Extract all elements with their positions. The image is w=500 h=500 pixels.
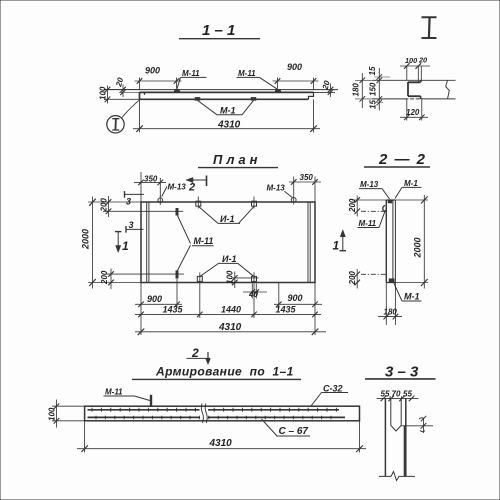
rib lines right (plan): [308, 202, 310, 283]
section mark 3 upper (plan): [125, 191, 145, 207]
svg-text:2000: 2000: [412, 237, 422, 258]
dim 900 left (section 1-1): [135, 66, 182, 91]
dim 55/70/55 (3-3): [377, 390, 419, 402]
label M-11 (2-2): [358, 210, 386, 228]
node I: dim 100 and 20 top: [400, 56, 430, 83]
svg-text:4310: 4310: [209, 438, 233, 449]
svg-text:200: 200: [348, 198, 357, 213]
node I: dim 120 bottom: [400, 99, 428, 121]
svg-text:350: 350: [300, 173, 314, 182]
break mark (armir.): [201, 404, 207, 424]
svg-text:15: 15: [368, 100, 377, 109]
svg-text:М-11: М-11: [105, 388, 123, 397]
dim 100 left (section 1-1): [99, 86, 140, 104]
svg-text:3: 3: [129, 220, 134, 230]
rib lines left (plan): [147, 202, 149, 283]
svg-text:4310: 4310: [218, 322, 242, 333]
svg-text:180: 180: [384, 308, 398, 317]
node I detail: serif I symbol: [422, 17, 437, 38]
svg-text:2 — 2: 2 — 2: [378, 151, 427, 168]
dim 2000 left (plan): [81, 197, 96, 289]
svg-text:И-1: И-1: [222, 254, 236, 264]
node I: break line right: [446, 80, 450, 99]
svg-text:Армирование по 1–1: Армирование по 1–1: [155, 365, 294, 379]
upper mesh S-32 line (armir.): [88, 409, 340, 411]
svg-text:М-11: М-11: [359, 219, 377, 228]
section mark 2 top: [186, 176, 207, 194]
svg-text:900: 900: [288, 293, 303, 303]
node I: floor top thin line: [373, 79, 456, 81]
svg-text:100: 100: [48, 407, 57, 421]
panel body section 1-1: [140, 92, 314, 99]
svg-text:М-13: М-13: [168, 183, 187, 192]
dim 180 bottom (2-2): [378, 283, 402, 326]
node mark circle I: [107, 100, 140, 133]
svg-text:3: 3: [126, 197, 131, 207]
node I: adjacent panel top edge: [408, 81, 421, 83]
embedded plate M-13 left (plan): [158, 195, 163, 204]
dim 100 left (armir.): [48, 400, 85, 428]
panel body section 2-2: [386, 200, 395, 283]
label M-11 right (section 1-1): [237, 69, 278, 89]
loop M-11 top bar (plan): [176, 208, 179, 216]
svg-text:180: 180: [351, 83, 360, 97]
loop M-11 bar (armir.): [150, 395, 152, 406]
svg-text:1: 1: [333, 239, 340, 253]
dim 200 bottom left (plan): [88, 269, 141, 290]
title Armirovanie po 1-1: [132, 365, 301, 380]
title 3-3: [365, 364, 436, 381]
svg-text:2: 2: [188, 182, 195, 194]
svg-text:1435: 1435: [276, 305, 297, 315]
svg-text:70: 70: [392, 390, 401, 399]
embedded plate M-13 right (plan): [291, 195, 296, 204]
svg-text:План: План: [213, 152, 262, 167]
label M-1 bottom (2-2): [394, 283, 422, 302]
dim 4310 (armir.): [77, 421, 366, 453]
keyway notch (3-3): [391, 425, 401, 431]
svg-text:200: 200: [348, 271, 357, 286]
svg-text:М-11: М-11: [238, 69, 256, 78]
svg-text:М-1: М-1: [404, 179, 418, 188]
svg-text:40: 40: [248, 290, 258, 299]
svg-text:55: 55: [403, 390, 412, 399]
loop M-11 top line (plan): [103, 210, 183, 212]
dim 200 bottom (2-2): [348, 269, 387, 289]
svg-text:М-13: М-13: [360, 180, 379, 189]
node I: dim 180 left column: [351, 73, 372, 108]
svg-text:1 – 1: 1 – 1: [202, 22, 235, 39]
node I: bottom line: [373, 98, 456, 100]
lower mesh S-67 line (armir.): [88, 416, 346, 418]
dim 2000 right (2-2): [395, 195, 428, 289]
svg-text:С – 67: С – 67: [279, 426, 309, 437]
plate M-13 end view (2-2 top): [388, 200, 392, 203]
dim 200 top left (plan): [88, 196, 141, 217]
svg-text:3 – 3: 3 – 3: [385, 364, 419, 381]
svg-text:200: 200: [100, 198, 109, 213]
svg-text:1: 1: [122, 239, 129, 253]
label M-1 (section 1-1): [198, 100, 254, 115]
topping thin line section 1-1: [104, 89, 338, 91]
svg-text:1440: 1440: [221, 305, 241, 315]
dim 200 top (2-2): [348, 196, 387, 217]
seat line with mini dim (3-3): [401, 416, 433, 433]
dim 350 left top (plan): [134, 172, 166, 202]
anchor M-1 left mark (section 1-1): [195, 97, 200, 100]
node I: joint step profile: [408, 80, 421, 99]
dim 40 at bottom plate (plan): [243, 284, 267, 300]
lifting loop M-11 left (section 1-1): [174, 89, 180, 92]
svg-text:М-1: М-1: [404, 292, 420, 302]
dim 100 at bottom plate (plan): [226, 270, 259, 288]
svg-text:20: 20: [418, 56, 427, 65]
svg-text:М-11: М-11: [182, 69, 200, 78]
section mark 2 bottom: [187, 346, 211, 365]
label S-32 (armir.): [311, 383, 348, 406]
dim row 1435/1440/1435 (plan): [135, 287, 321, 319]
dim 4310 bottom (plan): [135, 322, 326, 335]
svg-text:150: 150: [369, 82, 378, 96]
dim 900 bottom left (plan): [135, 279, 182, 336]
svg-text:900: 900: [287, 62, 302, 72]
embedded plate I-1 top left (plan): [196, 197, 201, 209]
label M-13 left (plan): [162, 183, 187, 197]
svg-text:120: 120: [406, 108, 420, 117]
embedded plate I-1 top right (plan): [252, 197, 257, 209]
loop M-11 bottom line (plan): [106, 273, 184, 275]
svg-text:100: 100: [226, 270, 235, 284]
section mark 1 right (plan): [333, 230, 347, 253]
title 2-2: [364, 151, 430, 168]
embedded plate I-1 bottom left (plan): [197, 272, 202, 286]
loop M-11 mark (2-2): [383, 206, 386, 212]
section mark 3 lower (plan): [126, 220, 144, 233]
svg-text:И-1: И-1: [220, 214, 234, 224]
label I-1 top (plan): [199, 206, 255, 224]
label M-11 (plan): [178, 216, 214, 271]
dim 900 right (section 1-1): [273, 62, 319, 90]
label M-11 (armir.): [104, 388, 150, 401]
section mark 1 left (plan): [115, 232, 129, 253]
svg-text:1435: 1435: [163, 305, 184, 315]
svg-text:900: 900: [147, 294, 162, 304]
node I: dim 15/150/15 right column: [368, 66, 390, 110]
embedded plate I-1 bottom right (plan): [252, 272, 257, 286]
label I-1 bottom (plan): [200, 254, 255, 277]
label M-1 top (2-2): [395, 179, 422, 199]
svg-text:200: 200: [100, 270, 109, 285]
bottom break line (3-3): [379, 472, 415, 481]
lifting loop M-11 right (section 1-1): [275, 89, 281, 92]
anchor M-1 right mark (section 1-1): [251, 97, 256, 100]
label M-11 left (section 1-1): [177, 69, 207, 89]
dim 4310 (section 1-1): [133, 100, 320, 133]
slab outline (armir.): [85, 406, 360, 421]
svg-text:350: 350: [144, 175, 158, 184]
groove profile verticals (3-3): [385, 399, 405, 477]
label S-67 (armir.): [262, 419, 311, 437]
svg-text:М-11: М-11: [194, 236, 214, 246]
svg-text:100: 100: [405, 56, 417, 65]
label M-13 right (plan): [267, 184, 293, 198]
dim 20 right (section 1-1): [314, 79, 336, 97]
dim 900 bottom right (plan): [274, 283, 322, 336]
svg-text:15: 15: [368, 66, 377, 75]
lower mesh ticks (armir.): [96, 416, 331, 420]
dim 350 right top (plan): [289, 173, 321, 202]
svg-text:100: 100: [99, 86, 108, 100]
dim 20 left (section 1-1): [114, 76, 144, 97]
title 1-1: [179, 22, 260, 39]
plate M-1 end view (2-2 bottom): [389, 279, 394, 283]
svg-text:20: 20: [114, 76, 125, 88]
svg-text:С-32: С-32: [323, 383, 343, 393]
upper mesh ticks (armir.): [92, 408, 336, 412]
svg-text:2000: 2000: [81, 229, 91, 250]
svg-text:4310: 4310: [217, 120, 241, 131]
svg-text:900: 900: [145, 66, 160, 76]
svg-text:М-13: М-13: [267, 184, 286, 193]
title Plan: [198, 152, 278, 168]
svg-text:М-1: М-1: [220, 106, 236, 116]
panel outline plan: [141, 202, 315, 283]
loop M-11 bottom bar (plan): [176, 270, 179, 278]
label M-13 (2-2): [359, 180, 390, 199]
